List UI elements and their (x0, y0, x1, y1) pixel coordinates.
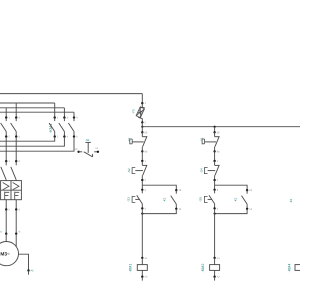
label -F3 (131, 109, 135, 114)
breaker Q1 thermal trip pole1 (5, 192, 10, 200)
svg-text:-S5: -S5 (199, 197, 203, 202)
svg-text:4: 4 (18, 136, 20, 139)
svg-text:14: 14 (179, 208, 182, 211)
node rung2 seal-in junction (214, 213, 216, 215)
svg-text:A1: A1 (145, 257, 149, 260)
wire control rail horizontal (142, 126, 300, 128)
thermal contact F1 actuator (202, 139, 216, 144)
node rail-rung2 (214, 126, 216, 128)
wire KM4 pole1 feed (54, 103, 56, 118)
svg-text:13: 13 (249, 189, 252, 192)
wire branch K1b top (215, 185, 248, 190)
wire S4 to S5 (214, 180, 216, 190)
label -KM1 (128, 264, 132, 273)
svg-text:95: 95 (217, 131, 220, 134)
svg-text:-K1: -K1 (289, 198, 293, 203)
svg-text:2: 2 (8, 209, 10, 212)
svg-text:-S1: -S1 (85, 138, 90, 142)
svg-text:A2: A2 (217, 276, 221, 279)
auxiliary contact K1a (13-14) (171, 189, 182, 211)
start button S3 actuator (132, 196, 140, 202)
breaker Q1 thermal trip pole2 (15, 192, 20, 200)
wire Q1 pole1 out (5, 200, 10, 212)
thermal contact F1 (95-96) (213, 131, 220, 153)
wire motor PE (18, 254, 34, 274)
label -S3 (126, 197, 130, 202)
wire KM4 pole1 return (0, 137, 55, 142)
svg-text:5: 5 (76, 117, 78, 120)
svg-text:M3~: M3~ (0, 252, 10, 258)
svg-text:3: 3 (67, 117, 69, 120)
svg-text:A1: A1 (217, 257, 221, 260)
contactor KM4 pole 2 (terminals 3-4) (59, 116, 69, 138)
breaker Q1 magnetic trip pole1 (3, 183, 9, 190)
coil KM1 (137, 257, 148, 281)
svg-text:-K1: -K1 (163, 197, 167, 202)
wire S2 to S3 (141, 180, 143, 190)
svg-text:1: 1 (57, 117, 59, 120)
breaker Q1 pole 1 blade (terminal 1) (1, 160, 11, 181)
motor M1 (M3~) (0, 242, 19, 266)
svg-text:1: 1 (8, 160, 10, 163)
wire branch K1b bottom (215, 209, 248, 214)
wire bus A (phase 1) (0, 102, 55, 104)
wire rail to F1 (214, 127, 216, 133)
wire bus B (phase 2) (0, 107, 64, 109)
wire motor stub U1 (5, 234, 7, 242)
svg-text:14: 14 (95, 147, 98, 150)
label -S2 (127, 168, 131, 173)
label -S4 (200, 168, 204, 173)
svg-text:-S4: -S4 (200, 168, 204, 173)
svg-text:A2: A2 (145, 276, 149, 279)
svg-text:1: 1 (145, 102, 147, 105)
svg-text:3: 3 (145, 189, 147, 192)
svg-text:V: V (19, 231, 21, 234)
svg-text:3: 3 (18, 160, 20, 163)
wire branch K1a top (142, 185, 176, 190)
svg-text:13: 13 (75, 148, 78, 151)
wire branch K1a bottom (142, 209, 176, 214)
coil KM2 (210, 257, 221, 281)
wire KM1 pole2 feed (15, 103, 17, 118)
contactor KM1 pole 2 (terminals 3-4) (11, 116, 21, 138)
svg-text:14: 14 (249, 208, 252, 211)
wire Q1 pole2 out (15, 200, 20, 212)
svg-text:3: 3 (18, 117, 20, 120)
svg-text:-K1: -K1 (233, 197, 237, 202)
label -KM4 (48, 123, 53, 133)
fuse-switch F3 terminal 1 (141, 102, 146, 107)
contactor KM4 pole 1 (terminals 1-2) (49, 116, 59, 138)
wire S3 to coil KM1 (141, 209, 143, 258)
wire KM1 pole1 feed (5, 108, 7, 118)
svg-text:2: 2 (57, 136, 59, 139)
wire KM4 pole3 feed (73, 112, 75, 117)
wire KM1 pole2 to Q1 (15, 137, 17, 162)
svg-text:-KM4: -KM4 (287, 264, 291, 273)
label -F1 (200, 137, 203, 141)
svg-text:6: 6 (76, 136, 78, 139)
svg-text:2: 2 (145, 121, 147, 124)
svg-text:-F3: -F3 (131, 109, 135, 114)
svg-text:-F2: -F2 (128, 137, 131, 141)
svg-text:4: 4 (217, 207, 219, 210)
wire KM4 pole2 return (0, 137, 64, 147)
svg-text:2: 2 (8, 136, 10, 139)
start button S5 (NO 3-4) (209, 189, 219, 211)
svg-text:-F1: -F1 (200, 137, 203, 141)
stop button S4 actuator (204, 168, 215, 174)
wire F3 to rail junction (141, 122, 143, 132)
wire motor stub V1 (15, 234, 17, 247)
node rung1 seal-in junction (141, 213, 143, 215)
auxiliary contact K1b (13-14) (242, 189, 253, 211)
label -K1 (rung1) (163, 197, 167, 202)
wire KM4 pole2 feed (63, 108, 65, 118)
svg-text:U: U (0, 231, 2, 234)
node rail-rung1 (141, 126, 143, 128)
svg-text:PE: PE (31, 270, 35, 273)
svg-text:-S3: -S3 (126, 197, 130, 202)
label -KM4 (coil) (287, 264, 291, 273)
svg-text:1: 1 (217, 160, 219, 163)
fuse-switch F3 terminal 2 (141, 118, 146, 124)
svg-text:96: 96 (217, 150, 220, 153)
contactor KM4 pole 3 (terminals 5-6) (68, 116, 78, 138)
label -F2 (128, 137, 131, 141)
svg-text:96: 96 (145, 150, 148, 153)
fuse-switch F3 body (136, 107, 144, 119)
svg-text:-KM1: -KM1 (128, 264, 132, 273)
breaker Q1 pole 2 blade (terminal 3) (11, 160, 21, 181)
svg-text:3: 3 (217, 189, 219, 192)
breaker Q1 magnetic trip pole2 (13, 183, 19, 190)
thermal contact F2 (95-96) (141, 131, 148, 153)
wire rail to F3 (141, 94, 143, 104)
wire S5 to coil KM2 (214, 209, 216, 258)
thermal contact F2 actuator (130, 139, 144, 144)
wire F2 to S2 (141, 151, 143, 161)
wire to motor U1 (0, 210, 7, 235)
stop button S4 (NC 1-2) (213, 160, 219, 182)
label -KM2 (201, 264, 205, 273)
breaker Q1 box outline (1, 181, 22, 200)
start button S3 (NO 3-4) (137, 189, 147, 211)
svg-text:4: 4 (67, 136, 69, 139)
coil KM4 (cropped) (295, 265, 305, 271)
start button S5 actuator (204, 196, 212, 202)
wire KM1 pole1 to Q1 (5, 137, 7, 162)
svg-text:95: 95 (145, 131, 148, 134)
label -S5 (199, 197, 203, 202)
svg-text:-KM2: -KM2 (201, 264, 205, 273)
wire top control rail L1 (0, 93, 142, 95)
wire F1 to S4 (214, 151, 216, 161)
svg-text:4: 4 (145, 207, 147, 210)
svg-text:1: 1 (145, 160, 147, 163)
wire to motor V1 (15, 210, 21, 235)
stop button S2 (NC 1-2) (141, 160, 147, 182)
svg-text:1: 1 (8, 117, 10, 120)
pushbutton S1 (horizontal, terminals 13-14) (75, 138, 100, 157)
svg-text:4: 4 (18, 209, 20, 212)
svg-text:-S2: -S2 (127, 168, 131, 173)
wire bus C (phase 3) (0, 111, 74, 113)
stop button S2 actuator (132, 168, 143, 174)
wire KM4 pole3 return (0, 137, 74, 152)
label -K1 (rung2) (233, 197, 237, 202)
contactor KM1 pole 1 (terminals 1-2) (1, 116, 11, 138)
label -K1 (rung3) (289, 198, 293, 203)
svg-text:2: 2 (217, 179, 219, 182)
svg-text:13: 13 (179, 189, 182, 192)
svg-text:2: 2 (145, 179, 147, 182)
